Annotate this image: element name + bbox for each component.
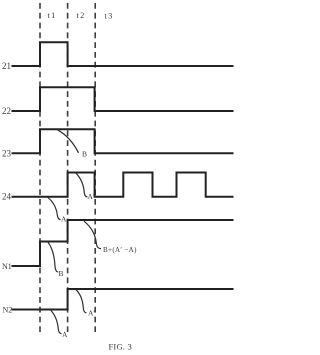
wire: leader from signal 23 high segment to label B (58, 130, 79, 153)
svg-text:N1: N1 (2, 262, 12, 271)
svg-text:t1: t1 (48, 11, 57, 20)
wire: leader from N1 high level to label B+(A'-A) (84, 221, 101, 248)
wire: signal 22 waveform (12, 87, 234, 111)
wire: signal 23 waveform (12, 129, 234, 153)
wire: dashed time marker t2 (67, 3, 69, 332)
svg-text:B: B (82, 150, 87, 159)
wire: signal 21 waveform (12, 42, 234, 66)
wire: dashed time marker t3 (94, 3, 96, 332)
svg-text:A′: A′ (88, 309, 95, 318)
wire: leader from signal 24 low segment to label A (48, 197, 61, 219)
svg-text:A: A (61, 215, 67, 224)
wire: leader from signal 24 high pulse to label A' (76, 173, 88, 197)
svg-text:N2: N2 (3, 306, 13, 315)
wire: dashed time marker t1 (39, 3, 41, 332)
svg-text:A: A (62, 330, 68, 339)
svg-text:t3: t3 (105, 12, 114, 21)
svg-text:23: 23 (2, 148, 12, 158)
wire: leader from N2 high level to label A' (76, 290, 86, 313)
svg-text:24: 24 (2, 192, 12, 202)
svg-text:t2: t2 (77, 11, 86, 20)
wire: signal 24 waveform (12, 173, 234, 197)
svg-text:FIG. 3: FIG. 3 (109, 342, 132, 352)
svg-text:B+(A′ −A): B+(A′ −A) (103, 246, 137, 254)
wire: node N2 waveform (12, 289, 234, 310)
wire: leader from N2 low level to label A (51, 310, 62, 334)
wire: node N1 staircase waveform (12, 220, 234, 266)
svg-text:A′: A′ (88, 192, 95, 201)
svg-text:B: B (59, 269, 64, 278)
svg-text:22: 22 (2, 106, 11, 116)
svg-text:21: 21 (2, 61, 11, 71)
wire: leader from N1 mid level to label B (48, 242, 58, 272)
